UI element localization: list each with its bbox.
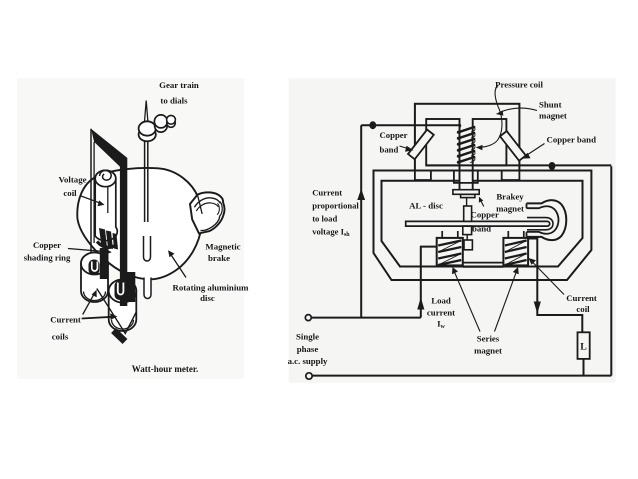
leader: copper band left bbox=[400, 146, 410, 149]
svg-text:proportional: proportional bbox=[312, 201, 359, 211]
wire W1 top horizontal to pressure coil bbox=[361, 124, 461, 126]
wire right coil to current-coil drop bbox=[528, 239, 582, 333]
coil 1 core bar (front) bbox=[100, 248, 109, 279]
leader: rotating aluminium disc arrow bbox=[171, 254, 187, 278]
supply top terminal bbox=[305, 315, 311, 321]
junction dot right bbox=[549, 162, 556, 170]
shading-ring black bits under coil bbox=[97, 242, 117, 248]
leaders: series magnet bbox=[454, 271, 480, 332]
brake magnet tips bbox=[526, 203, 528, 237]
arrow up on W2 (current proportional) bbox=[357, 189, 365, 200]
copper band left (diagonal) bbox=[408, 130, 434, 160]
frame window inner-left edge bbox=[93, 142, 95, 243]
pressure-coil return wire y=165.4 bbox=[426, 164, 612, 166]
lower bearing pin bbox=[144, 278, 151, 299]
svg-text:Magnetic: Magnetic bbox=[205, 242, 240, 252]
svg-text:coil: coil bbox=[576, 304, 590, 314]
brake magnet slot bbox=[527, 218, 553, 230]
leader: current coils arrow right bbox=[82, 317, 113, 319]
svg-text:disc: disc bbox=[200, 293, 215, 303]
svg-text:Current: Current bbox=[312, 188, 342, 198]
leader: current coils arrow up bbox=[83, 294, 95, 315]
frame left edge bbox=[90, 129, 92, 267]
svg-text:Brakey: Brakey bbox=[496, 192, 524, 202]
magnetic brake (3D horseshoe) bbox=[190, 192, 224, 233]
load box L bbox=[578, 332, 590, 359]
core yoke V lines bbox=[97, 289, 136, 334]
frame bottom wedge bbox=[114, 331, 126, 342]
gear big (bottom ellipse + top) bbox=[139, 128, 156, 142]
voltage coil cylinder bbox=[95, 170, 117, 240]
wire L to bottom bus bbox=[583, 359, 585, 376]
shunt magnet right window bbox=[473, 119, 507, 165]
centre pole shoe bbox=[454, 171, 478, 183]
svg-text:Current: Current bbox=[566, 293, 597, 303]
centre limb sides bbox=[460, 165, 473, 189]
svg-text:magnet: magnet bbox=[496, 204, 524, 214]
svg-text:Current: Current bbox=[50, 315, 81, 325]
svg-text:Rotating aluminium: Rotating aluminium bbox=[172, 283, 249, 293]
upper copper band on spindle bbox=[464, 206, 472, 221]
spindle T flange bbox=[453, 190, 479, 195]
coil seam bbox=[107, 187, 109, 214]
bottom bus wire bbox=[312, 375, 611, 377]
svg-text:Shunt: Shunt bbox=[539, 100, 562, 110]
wire supply top to load-current corner bbox=[311, 317, 420, 319]
spindle double line bbox=[145, 142, 148, 223]
brake magnet inner bbox=[527, 206, 559, 234]
junction dot top-left bbox=[369, 121, 376, 129]
coil top curl bbox=[100, 171, 112, 181]
leader: shunt magnet bbox=[500, 108, 538, 112]
left coil winding bbox=[438, 241, 461, 266]
enclosure outer octagon (gaps at shunt limbs) bbox=[374, 171, 592, 281]
svg-text:Load: Load bbox=[431, 296, 451, 306]
right coil winding bbox=[505, 241, 527, 266]
svg-text:coil: coil bbox=[63, 188, 77, 198]
left limb foot bbox=[415, 171, 431, 181]
svg-text:magnet: magnet bbox=[539, 111, 567, 121]
svg-text:Voltage: Voltage bbox=[58, 175, 86, 185]
current coil 2 cylinder bbox=[109, 280, 137, 332]
brake magnet (right fig) outer bbox=[527, 200, 567, 240]
shunt magnet outer box bbox=[415, 104, 520, 171]
right limb foot bbox=[502, 171, 520, 181]
svg-text:to dials: to dials bbox=[160, 96, 188, 106]
series magnet yoke bbox=[463, 263, 504, 267]
series coil left bbox=[437, 238, 463, 266]
coil 2 core bar (front) bbox=[125, 272, 135, 302]
svg-text:magnet: magnet bbox=[474, 346, 502, 356]
leader: copper band right bbox=[526, 144, 545, 157]
svg-text:Copper: Copper bbox=[471, 210, 499, 220]
gear small bbox=[167, 119, 176, 128]
svg-text:coils: coils bbox=[52, 332, 69, 342]
svg-text:Series: Series bbox=[477, 334, 500, 344]
svg-text:Copper: Copper bbox=[33, 240, 61, 250]
svg-text:L: L bbox=[580, 342, 587, 353]
leader: voltage coil arrow bbox=[81, 196, 101, 203]
gear middle bbox=[155, 120, 168, 133]
svg-text:current: current bbox=[427, 308, 455, 318]
spindle needle at top bbox=[144, 101, 148, 124]
svg-text:band: band bbox=[380, 145, 399, 155]
load current wire up to series coil bbox=[421, 247, 437, 318]
coil 1 core slot bbox=[89, 260, 100, 276]
svg-text:phase: phase bbox=[297, 344, 319, 354]
coil rim arcs bbox=[84, 292, 106, 301]
series coil right bbox=[503, 238, 528, 266]
current coil 1 cylinder bbox=[81, 253, 108, 303]
lower copper band on spindle bbox=[464, 240, 472, 250]
coil 2 core slot bbox=[115, 281, 126, 301]
supply bottom terminal bbox=[306, 373, 312, 379]
svg-text:Copper: Copper bbox=[380, 130, 408, 140]
copper band right (diagonal) bbox=[500, 131, 526, 161]
svg-text:Single: Single bbox=[296, 332, 319, 342]
leader: pressure coil bbox=[481, 86, 502, 148]
spindle lower link bbox=[466, 235, 468, 240]
under-disc piece bbox=[463, 226, 472, 235]
svg-text:to load: to load bbox=[312, 214, 337, 224]
svg-text:shading ring: shading ring bbox=[24, 253, 71, 263]
svg-text:Pressure coil: Pressure coil bbox=[495, 80, 543, 90]
load current up arrow bbox=[417, 298, 424, 310]
svg-text:brake: brake bbox=[208, 253, 230, 263]
svg-text:Watt-hour meter.: Watt-hour meter. bbox=[132, 364, 199, 374]
svg-text:AL - disc: AL - disc bbox=[409, 201, 443, 211]
leader: copper shading ring arrow bbox=[68, 249, 108, 252]
svg-text:Copper band: Copper band bbox=[547, 135, 597, 145]
wire W2 vertical from supply to top corner bbox=[360, 125, 362, 317]
right bus wire up bbox=[610, 166, 612, 375]
rotating aluminium disc (big tilted ellipse) bbox=[77, 168, 202, 279]
svg-text:band: band bbox=[472, 224, 491, 234]
leader: copper band middle bbox=[481, 201, 484, 207]
enclosure inner octagon (gap at centre limb) bbox=[382, 181, 583, 267]
spindle upper link bbox=[466, 198, 468, 206]
svg-text:a.c. supply: a.c. supply bbox=[288, 356, 328, 366]
series magnet pole stubs bbox=[442, 231, 524, 238]
current coil down arrow bbox=[534, 302, 541, 314]
frame black band (top + right) bbox=[91, 129, 127, 306]
AL disc bar bbox=[406, 221, 550, 226]
leader: current coil bbox=[532, 261, 565, 295]
shunt magnet left window bbox=[426, 119, 459, 165]
pressure coil helix bbox=[458, 127, 474, 162]
hub + centre pin below disc centre bbox=[144, 236, 151, 261]
svg-text:Gear train: Gear train bbox=[159, 80, 199, 90]
